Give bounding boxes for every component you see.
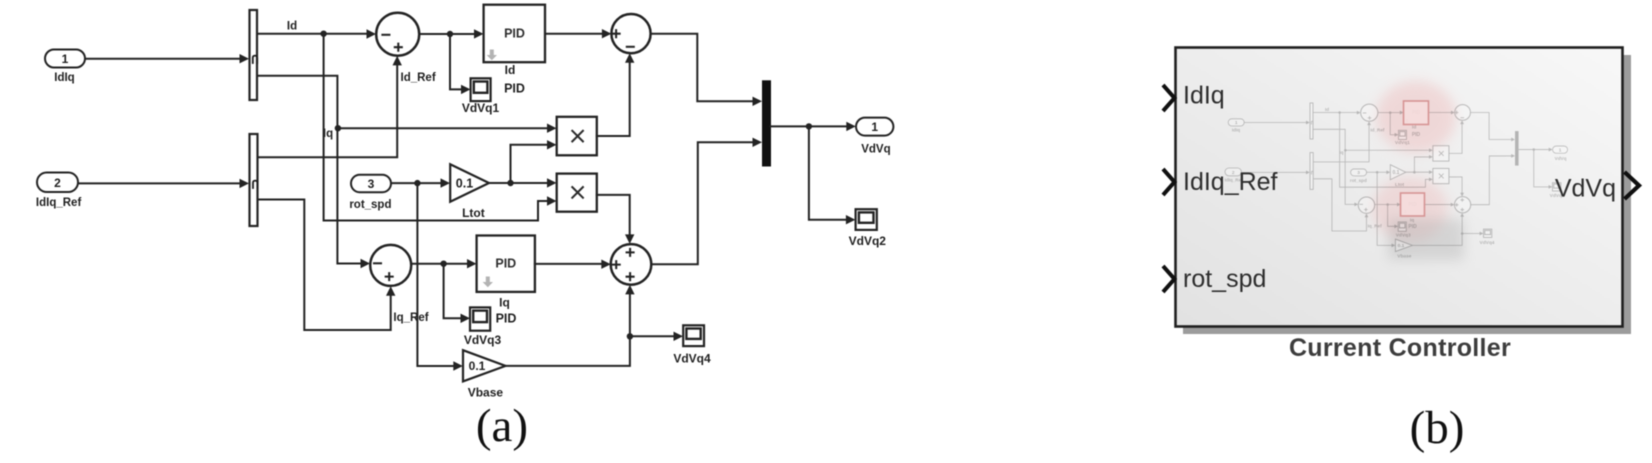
input chevron port 2 — [1163, 169, 1175, 195]
input chevron port 3 — [1163, 266, 1175, 292]
subsystem block Current Controller — [1176, 48, 1623, 327]
svg-text:IdIq_Ref: IdIq_Ref — [1183, 168, 1278, 196]
svg-text:rot_spd: rot_spd — [1183, 265, 1266, 293]
faded internal preview of diagram inside subsystem — [1225, 81, 1568, 260]
svg-text:VdVq: VdVq — [1555, 175, 1616, 203]
subsystem block shadow — [1183, 55, 1631, 334]
figure (a): full-size controller diagram — [36, 5, 893, 400]
svg-text:Current Controller: Current Controller — [1289, 334, 1511, 362]
output chevron — [1625, 172, 1640, 199]
svg-text:(b): (b) — [1410, 402, 1465, 454]
svg-text:IdIq: IdIq — [1183, 82, 1225, 110]
svg-text:(a): (a) — [476, 400, 528, 452]
input chevron port 1 — [1163, 85, 1175, 111]
